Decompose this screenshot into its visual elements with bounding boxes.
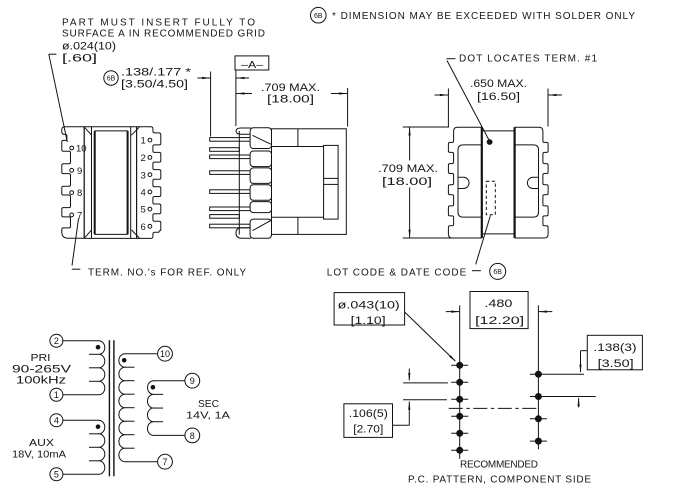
svg-text:SURFACE A IN RECOMMENDED GRID: SURFACE A IN RECOMMENDED GRID — [62, 29, 265, 40]
side view: flange hook top — [236, 128, 250, 134]
svg-text:3: 3 — [141, 170, 146, 181]
terminal 2 — [50, 334, 63, 347]
svg-text:[2.70]: [2.70] — [353, 424, 383, 436]
dimension .480 row spacing — [446, 292, 553, 329]
svg-text:6B: 6B — [314, 13, 323, 20]
svg-text:.138(3): .138(3) — [594, 342, 637, 354]
dimension box pad diameter .043 — [334, 293, 405, 328]
svg-text:PART MUST INSERT FULLY TO: PART MUST INSERT FULLY TO — [62, 17, 255, 28]
svg-text:1: 1 — [141, 136, 146, 147]
side view: terminal pins near row — [210, 148, 240, 219]
svg-text:[18.00]: [18.00] — [382, 176, 432, 188]
note: lot code and date code — [327, 263, 506, 279]
front view: lot code marking area — [486, 181, 495, 214]
front view: right flange slot — [527, 177, 538, 188]
svg-text:1: 1 — [54, 390, 59, 400]
svg-text:[16.50]: [16.50] — [477, 91, 520, 103]
svg-text:6B: 6B — [493, 269, 502, 276]
pc pattern: left pad column line — [459, 305, 461, 458]
terminal 8 — [185, 428, 200, 443]
svg-text:PRI: PRI — [31, 352, 51, 364]
front view: right terminal block — [515, 127, 548, 238]
svg-text:14V, 1A: 14V, 1A — [186, 409, 230, 421]
svg-text:SEC: SEC — [198, 398, 219, 410]
side view: .709 MAX width dimension — [236, 82, 348, 127]
svg-text:8: 8 — [77, 188, 82, 199]
callout 6B (pin dimension) — [104, 71, 118, 85]
svg-text:–A–: –A– — [241, 59, 263, 71]
side view: datum A box — [235, 56, 269, 71]
svg-text:5: 5 — [141, 205, 146, 216]
side view: extension lines for pin dimension — [211, 70, 236, 137]
svg-text:ø.043(10): ø.043(10) — [338, 300, 400, 312]
dimension .138 pitch right row — [547, 335, 642, 407]
top view: terminal holes and numbers 1-6 — [141, 136, 152, 233]
top view: left terminal comb (pins 7-10) — [62, 127, 84, 239]
front view: left flange slot — [458, 177, 469, 188]
svg-text:100kHz: 100kHz — [16, 374, 66, 386]
leader: lot code note — [476, 216, 491, 265]
top view: bobbin flange lines — [84, 127, 136, 239]
svg-text:P.C. PATTERN, COMPONENT SIDE: P.C. PATTERN, COMPONENT SIDE — [408, 475, 591, 486]
polarity dot PRI — [96, 345, 101, 350]
svg-text:6B: 6B — [107, 76, 116, 83]
svg-text:ø.024(10): ø.024(10) — [62, 41, 116, 53]
svg-text:9: 9 — [77, 166, 82, 177]
terminal 5 — [50, 468, 63, 481]
terminal 10 — [158, 346, 173, 361]
svg-text:2: 2 — [141, 153, 146, 164]
pc pattern: right pads (terminals 7-10) — [530, 371, 547, 445]
svg-text:.138/.177 *: .138/.177 * — [121, 67, 192, 79]
leader: term numbers note — [72, 218, 81, 269]
front view: dot locates terminal 1 note — [447, 53, 598, 139]
svg-text:[.60]: [.60] — [62, 53, 97, 65]
front view: right bobbin flange — [515, 145, 539, 217]
label PRI winding — [12, 352, 72, 387]
winding SEC (terminals 9-8) — [147, 381, 185, 436]
pc pattern: centerline — [449, 407, 537, 409]
svg-text:[12.20]: [12.20] — [475, 315, 524, 327]
polarity dot terminal 9 — [151, 385, 156, 390]
polarity dot terminal 10 — [122, 358, 127, 363]
side view: core clip slot — [324, 145, 339, 219]
side view: terminal pins — [210, 138, 251, 228]
side view: .138/.177 dimension arrows — [198, 77, 250, 79]
svg-text:AUX: AUX — [29, 437, 54, 449]
svg-text:2: 2 — [54, 336, 59, 346]
top view: right terminal comb (pins 1-6) — [137, 127, 161, 239]
winding AUX (terminals 4-5) — [63, 420, 105, 474]
svg-text:4: 4 — [141, 188, 146, 199]
svg-text:10: 10 — [160, 349, 170, 359]
side view: transformer body outline — [272, 129, 347, 235]
svg-text:7: 7 — [162, 457, 167, 467]
dimension .138/.177 pin length — [121, 67, 192, 91]
dimension .106 pitch left row — [344, 369, 448, 438]
svg-text:.709 MAX.: .709 MAX. — [378, 163, 438, 175]
caption: recommended pc pattern — [408, 459, 591, 485]
svg-text:DOT LOCATES TERM. #1: DOT LOCATES TERM. #1 — [459, 53, 597, 64]
svg-text:LOT CODE & DATE CODE: LOT CODE & DATE CODE — [327, 268, 467, 279]
svg-text:TERM. NO.'s FOR REF. ONLY: TERM. NO.'s FOR REF. ONLY — [88, 267, 246, 278]
svg-text:8: 8 — [190, 431, 195, 441]
svg-text:5: 5 — [54, 470, 59, 480]
front view: left bobbin flange — [458, 145, 482, 217]
terminal 4 — [50, 414, 63, 427]
top view: core outline — [84, 127, 136, 239]
top view: terminal holes and numbers 7-10 — [70, 144, 87, 222]
svg-text:[3.50/4.50]: [3.50/4.50] — [121, 79, 188, 91]
note: part insertion instructions — [62, 17, 265, 64]
side view: module chamfer lines — [253, 135, 271, 230]
svg-text:[3.50]: [3.50] — [598, 358, 634, 370]
front view: .650 MAX dimension — [435, 78, 563, 127]
transformer T1 core — [109, 340, 114, 476]
polarity dot AUX — [96, 424, 101, 429]
terminal 9 — [185, 373, 200, 388]
side view: flange hook bottom — [236, 228, 251, 239]
side view: terminal block modules — [250, 128, 271, 238]
svg-text:.709 MAX.: .709 MAX. — [261, 82, 320, 94]
terminal 1 — [50, 388, 63, 401]
svg-text:.650 MAX.: .650 MAX. — [470, 78, 527, 90]
pc pattern: left pads (terminals 1-6) — [451, 362, 468, 454]
svg-text:RECOMMENDED: RECOMMENDED — [460, 459, 538, 470]
svg-text:7: 7 — [77, 211, 82, 222]
pc pattern: right pad column line — [537, 305, 539, 449]
note: solder-only exception — [311, 7, 636, 23]
terminal 7 — [158, 454, 173, 469]
front view: .709 MAX height dimension — [378, 127, 454, 238]
svg-text:[1.10]: [1.10] — [351, 315, 386, 327]
winding 10-7 (secondary inner) — [119, 354, 158, 462]
svg-text:6: 6 — [141, 222, 146, 233]
svg-text:* DIMENSION MAY BE EXCEEDED WI: * DIMENSION MAY BE EXCEEDED WITH SOLDER … — [332, 11, 635, 22]
leader from .024 note to top view — [49, 54, 68, 142]
front view: left terminal block — [448, 127, 481, 238]
front view: terminal 1 locating dot — [487, 139, 493, 145]
svg-text:.480: .480 — [484, 298, 512, 310]
svg-text:18V, 10mA: 18V, 10mA — [12, 449, 66, 461]
svg-text:[18.00]: [18.00] — [267, 94, 314, 106]
label SEC winding — [186, 398, 230, 422]
svg-text:10: 10 — [76, 144, 87, 155]
winding PRI (terminals 2-1) — [63, 341, 105, 395]
leader: pad diameter to pad — [405, 312, 457, 362]
side view: bobbin front flange edge — [238, 131, 240, 235]
svg-text:4: 4 — [54, 416, 59, 426]
top view: flange corner chamfers — [85, 127, 140, 238]
svg-text:9: 9 — [190, 376, 195, 386]
svg-text:.106(5): .106(5) — [349, 408, 388, 420]
front view: core — [482, 127, 515, 238]
label AUX winding — [12, 437, 66, 461]
